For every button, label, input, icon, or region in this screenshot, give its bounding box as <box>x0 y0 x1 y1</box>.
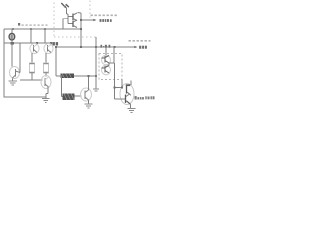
transistor Q11 <box>102 65 111 75</box>
node dot rail/mirror <box>80 28 82 30</box>
wire R1 bottom to node <box>31 73 33 80</box>
base rail node line <box>11 42 15 45</box>
emitter wire Q5 to ground rail <box>47 87 49 94</box>
ground G5 <box>128 108 136 110</box>
ground rail <box>4 96 46 98</box>
mirror right vertical <box>80 13 82 47</box>
output node wire <box>56 46 135 48</box>
top rail <box>4 28 81 30</box>
transistor Q10 <box>102 55 111 65</box>
ground G3 <box>85 103 93 105</box>
base wire upper out <box>115 87 122 89</box>
mirror left collector wire <box>62 19 64 30</box>
wire collector Q1 <box>30 29 32 44</box>
wire R2 bottom to Q5 collector <box>45 73 47 77</box>
box stub <box>121 80 123 85</box>
current source arrow Q7 <box>61 3 64 6</box>
driver branch down <box>114 63 116 99</box>
emitter wire Q6 to ground <box>88 100 90 104</box>
collector wire Q6 up <box>88 76 90 90</box>
resistor R4 <box>63 94 75 101</box>
transistor Q6 <box>81 88 92 101</box>
label row above rail <box>18 23 20 26</box>
resistor R1 <box>30 63 35 73</box>
transistor Q9 <box>68 20 77 28</box>
output label <box>135 96 155 99</box>
label on wire <box>101 45 111 48</box>
out label <box>139 46 147 49</box>
node line to Q5 base <box>20 79 43 81</box>
base wire Q4 <box>19 43 21 73</box>
ground G4 <box>93 88 99 90</box>
out label line1 <box>129 40 151 42</box>
branch down to R4 <box>61 76 63 97</box>
left supply bus <box>3 29 5 98</box>
wire inside box <box>109 62 114 64</box>
resistor R2 <box>44 63 49 73</box>
base wire lower out <box>115 98 126 100</box>
arrowhead out <box>134 46 137 49</box>
ground G2 <box>42 98 50 100</box>
node dots on output wire <box>55 46 57 48</box>
supply label <box>100 19 112 22</box>
supply arrow wire <box>81 19 94 21</box>
transistor Q2 <box>44 44 53 54</box>
label Q2 <box>53 42 59 45</box>
wire R4 to Q6 base <box>75 95 82 97</box>
wire R3 to bus <box>74 75 96 77</box>
emitter wire Q1 <box>31 53 33 63</box>
dotted boundary vertical top <box>89 1 91 18</box>
mid bus <box>95 37 97 89</box>
emitter wire Q2 <box>45 53 47 63</box>
gain resistor branch <box>55 47 57 76</box>
transistor Q8 <box>68 13 77 21</box>
transistor Q13 <box>125 95 127 104</box>
emitter wire to ground <box>130 104 132 108</box>
resistor R3 <box>61 74 75 79</box>
current source I1 <box>11 29 13 67</box>
supply label small <box>91 14 118 16</box>
dotted boundary vertical left <box>53 3 55 38</box>
node dot on top rail <box>12 28 14 30</box>
mirror base wire <box>67 13 69 15</box>
wire Q10 collector <box>105 48 107 56</box>
wire collector Q2 <box>44 29 46 44</box>
transistor Q1 <box>30 44 39 54</box>
transistor Q5 <box>41 76 51 89</box>
ground G1 <box>12 79 14 82</box>
dotted boundary horizontal <box>54 36 96 38</box>
collector tie <box>121 80 123 88</box>
transistor Q4 (lower left) <box>10 67 21 79</box>
dashed box U1 <box>99 54 122 80</box>
transistor Q12 <box>120 84 134 105</box>
